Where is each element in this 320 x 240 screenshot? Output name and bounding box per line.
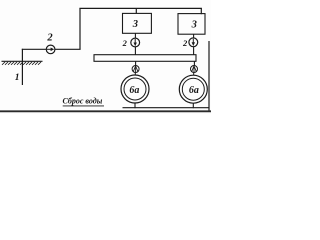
valve B circle symbol: [191, 66, 198, 73]
tank box 3 (left): [123, 13, 152, 33]
right border line: [208, 41, 210, 111]
tank box 3 (right): [178, 14, 205, 35]
drop pump B to collector: [193, 47, 195, 55]
drop collector to valve B: [193, 61, 195, 65]
svg-text:1: 1: [15, 73, 20, 83]
svg-text:3: 3: [132, 19, 138, 30]
svg-text:6а: 6а: [189, 85, 199, 96]
drop filter A to drain pipe: [134, 103, 136, 108]
top pipe horizontal: [79, 7, 201, 9]
valve A circle symbol: [132, 66, 139, 73]
stub to tank box 3 (left): [135, 9, 137, 14]
connector valve A to filter A: [134, 72, 136, 75]
pump 2 B (down arrow): [189, 38, 198, 47]
connector valve B to filter B: [193, 72, 195, 75]
bottom border line: [0, 110, 211, 112]
pump 2 (left, arrow right): [46, 45, 55, 54]
stub to tank box 3 (right): [200, 8, 202, 14]
svg-text:6а: 6а: [129, 85, 139, 96]
drop filter B to drain pipe: [192, 103, 194, 108]
suction pipe vertical: [21, 49, 23, 85]
svg-text:Сброс воды: Сброс воды: [63, 97, 103, 106]
filter 6a (right, double circle): [179, 75, 207, 103]
pump 2 A (down arrow): [131, 38, 140, 47]
svg-text:2: 2: [46, 33, 53, 44]
stub box to pump A: [134, 33, 136, 38]
riser pipe vertical: [79, 9, 81, 50]
stub box to pump B: [193, 34, 195, 38]
suction pipe horizontal: [22, 48, 81, 50]
svg-text:2: 2: [182, 38, 188, 48]
drop collector to valve A: [135, 61, 137, 65]
label: Сброс воды: [63, 97, 105, 106]
drop pump A to collector: [134, 47, 136, 55]
drain pipe horizontal: [123, 107, 210, 109]
water source hatched surface line 1: [2, 61, 43, 65]
svg-text:2: 2: [122, 38, 128, 48]
svg-text:3: 3: [191, 19, 197, 30]
collector bus rectangle: [94, 55, 196, 62]
filter 6a (left, double circle): [121, 75, 149, 103]
